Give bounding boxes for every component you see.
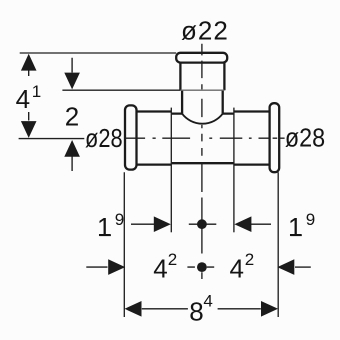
saddle arc (branch opening into run) [182,114,223,124]
svg-text:4: 4 [16,84,30,114]
centerline horizontal (run pipe axis) [125,137,285,139]
svg-text:2: 2 [65,102,79,132]
dimension row 2: 4^2 right arrow (outside) [277,259,311,275]
left socket body outline [137,112,172,165]
dimension row 3: 8^4 overall [125,301,279,317]
dimension row 1: 1^9 right [234,216,271,232]
svg-text:9: 9 [115,210,124,229]
svg-text:4: 4 [153,254,167,284]
svg-text:1: 1 [97,212,111,242]
svg-text:9: 9 [306,210,315,229]
extension line: right fitting end [277,172,279,317]
svg-text:1: 1 [288,212,302,242]
row 2 center stubs + node dot [187,262,214,272]
svg-text:4: 4 [230,254,244,284]
dimension row 1: 1^9 left [131,216,171,232]
svg-text:2: 2 [168,250,177,269]
svg-text:1: 1 [32,82,41,101]
right bead (press end collar, run pipe right) [270,103,280,172]
branch pipe walls [182,90,223,113]
branch bead (press end collar, top branch) [176,53,227,63]
extension line: top reference (branch end level) [20,52,177,54]
row 1 center stubs + node dot [189,219,217,229]
run pipe outline [171,114,234,164]
extension line: right socket mouth [233,108,235,233]
branch socket walls [180,62,224,90]
svg-text:ø28: ø28 [85,124,123,153]
svg-text:ø28: ø28 [285,125,325,153]
left bead (press end collar, run pipe left) [125,105,137,169]
right socket body outline [234,112,270,165]
extension line: left socket mouth [170,108,172,233]
branch socket transition line [180,89,224,91]
dimension 2 (left, socket depth) [64,58,80,171]
svg-text:2: 2 [245,250,254,269]
svg-text:ø22: ø22 [181,16,229,46]
extension line: centerline level, left [19,138,85,140]
svg-text:8: 8 [189,297,203,327]
extension line: 2-dim reference (socket bottom level) [62,89,180,91]
dimension row 2: 4^2 left arrow (outside) [86,259,125,275]
svg-text:4: 4 [203,292,212,311]
centerline vertical (branch axis) [201,44,203,279]
dimension 4^1 (left, top) [21,54,37,138]
extension line: left fitting end [123,172,125,317]
